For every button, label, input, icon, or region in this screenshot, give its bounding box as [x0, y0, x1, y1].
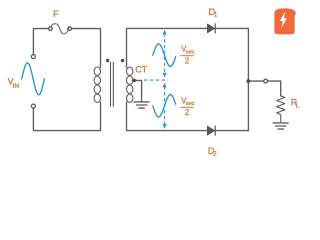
ground under CT [134, 102, 149, 108]
wire D2 bar to right corner [215, 130, 248, 132]
wire fuse to primary top [71, 28, 100, 30]
CT tap wire to ground [132, 80, 141, 101]
dashed measure arrow lower Vsec/2 [163, 83, 167, 129]
input terminal top [31, 55, 35, 59]
dashed horizontal at CT level [144, 79, 168, 81]
output terminal circle [264, 79, 268, 83]
ground under RL [273, 123, 288, 129]
diode D2 [207, 126, 215, 135]
V_IN source sine [22, 63, 45, 95]
lower secondary sine [153, 95, 176, 117]
logo orange badge with lightning bolt [274, 8, 295, 34]
svg-text:1: 1 [214, 12, 218, 19]
svg-text:CT: CT [135, 65, 147, 75]
wire secondary bottom stub and rail to D2 [127, 102, 208, 131]
wire bottom-left from terminal down and right to primary [33, 108, 100, 131]
dashed measure arrow upper Vsec/2 [163, 30, 167, 78]
wire primary bottom stub [100, 102, 102, 131]
svg-text:2: 2 [213, 151, 217, 158]
output junction dot [246, 79, 250, 83]
secondary winding loops [127, 67, 133, 102]
resistor RL zigzag [277, 96, 285, 122]
primary winding L1 loops [94, 67, 100, 102]
svg-text:2: 2 [185, 56, 189, 65]
svg-text:IN: IN [13, 83, 20, 90]
wire D1 to right corner and down right rail [215, 28, 248, 130]
upper secondary sine [153, 44, 176, 67]
wire secondary top stub and rail to D1 [127, 28, 208, 67]
transformer polarity dot left [106, 59, 110, 63]
transformer polarity dot right [121, 59, 125, 63]
wire junction to output terminal [248, 80, 263, 82]
wire terminal to resistor top [268, 81, 281, 96]
svg-text:L: L [296, 103, 300, 110]
svg-text:sec: sec [186, 101, 195, 107]
CT junction dot [133, 79, 137, 83]
svg-text:F: F [53, 9, 59, 19]
diode D1 [207, 24, 215, 33]
svg-text:2: 2 [185, 108, 189, 117]
label Vsec/2 lower [180, 96, 195, 117]
label Vsec/2 upper [180, 45, 195, 66]
transformer core [111, 62, 114, 106]
svg-text:sec: sec [186, 50, 195, 56]
wire primary top stub [100, 29, 102, 68]
fuse F [49, 24, 72, 34]
input terminal bottom [31, 104, 35, 108]
wire top-left from terminal up to corner and right to fuse [33, 29, 48, 55]
